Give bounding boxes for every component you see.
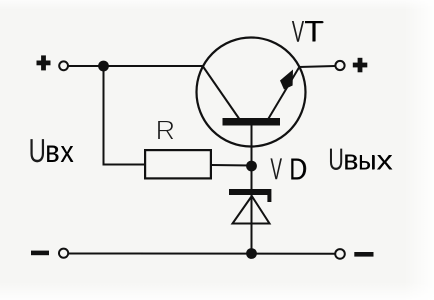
plus sign (output +) xyxy=(353,58,368,73)
transistor emitter arrow xyxy=(280,70,293,90)
resistor R body xyxy=(145,150,211,178)
svg-text:в: в xyxy=(343,144,358,176)
node C junction dot (bottom) xyxy=(246,248,257,259)
zener cathode hook xyxy=(267,195,271,202)
minus sign (input -) xyxy=(31,251,49,256)
svg-text:T: T xyxy=(304,14,323,48)
svg-text:в: в xyxy=(45,135,59,170)
node B junction dot xyxy=(246,161,257,172)
plus sign (input +) xyxy=(37,55,51,70)
wire: resistor to node B xyxy=(212,164,252,167)
transistor collector diagonal xyxy=(203,67,239,119)
wire: vertical drop from node A to resistor level xyxy=(104,66,145,165)
minus sign (output -) xyxy=(354,252,373,257)
bottom-left terminal circle xyxy=(59,249,68,258)
input terminal circle xyxy=(59,61,68,70)
transistor VT circle xyxy=(197,38,306,147)
node A junction dot xyxy=(98,61,109,72)
svg-text:х: х xyxy=(377,146,393,176)
svg-text:ы: ы xyxy=(358,144,376,176)
svg-text:D: D xyxy=(289,152,306,186)
wire: bottom rail xyxy=(69,253,335,255)
output terminal circle xyxy=(335,61,344,70)
wire: top rail input to transistor xyxy=(69,65,204,67)
wire: transistor base down through node B to bottom rail xyxy=(251,124,253,254)
label VT xyxy=(292,21,324,42)
bottom-right terminal circle xyxy=(335,249,345,259)
svg-text:х: х xyxy=(60,135,74,169)
wire: transistor to output terminal xyxy=(299,66,335,67)
zener VD cathode bar xyxy=(229,189,271,195)
transistor emitter diagonal xyxy=(269,68,300,119)
label VD xyxy=(270,158,306,179)
label Uвх xyxy=(30,139,74,162)
zener anode triangle xyxy=(233,196,270,224)
label R xyxy=(158,121,174,140)
label Uвых xyxy=(330,149,393,170)
transistor base bar xyxy=(223,118,281,126)
